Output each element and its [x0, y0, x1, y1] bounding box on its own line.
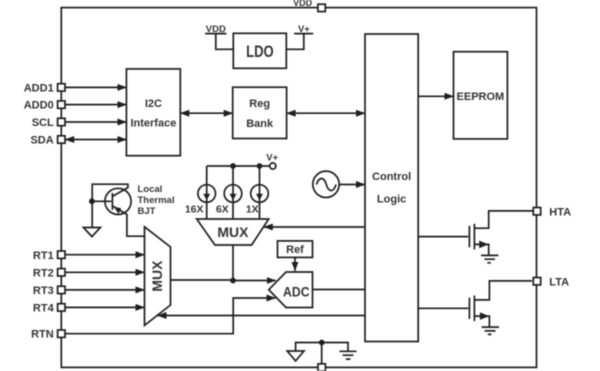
svg-text:Thermal: Thermal — [138, 195, 175, 206]
svg-text:HTA: HTA — [549, 206, 571, 218]
svg-text:LTA: LTA — [549, 276, 569, 288]
svg-text:RT3: RT3 — [33, 285, 54, 297]
svg-text:16X: 16X — [185, 204, 204, 216]
svg-text:VDD: VDD — [293, 0, 312, 9]
svg-text:RTN: RTN — [31, 329, 54, 341]
svg-text:Ref: Ref — [286, 244, 304, 256]
svg-text:VDD: VDD — [206, 24, 226, 35]
svg-text:MUX: MUX — [150, 261, 165, 292]
svg-text:RT2: RT2 — [33, 267, 54, 279]
svg-text:ADD1: ADD1 — [24, 83, 54, 95]
svg-text:ADC: ADC — [283, 284, 310, 299]
svg-text:V+: V+ — [298, 24, 310, 35]
svg-text:1X: 1X — [246, 204, 259, 216]
svg-text:RT1: RT1 — [33, 250, 54, 262]
svg-text:Control: Control — [372, 171, 411, 183]
svg-text:Interface: Interface — [130, 118, 176, 130]
svg-text:EEPROM: EEPROM — [457, 91, 505, 103]
svg-text:MUX: MUX — [217, 225, 248, 240]
svg-text:SDA: SDA — [30, 135, 53, 147]
svg-text:Reg: Reg — [249, 98, 270, 110]
svg-text:V+: V+ — [266, 152, 278, 163]
svg-text:LDO: LDO — [246, 42, 274, 61]
svg-text:BJT: BJT — [138, 206, 156, 217]
svg-text:Bank: Bank — [246, 118, 274, 130]
svg-text:Logic: Logic — [377, 193, 406, 205]
svg-text:6X: 6X — [216, 204, 229, 216]
svg-text:I2C: I2C — [145, 98, 162, 110]
svg-text:RT4: RT4 — [33, 303, 55, 315]
svg-text:Local: Local — [138, 184, 163, 195]
svg-text:SCL: SCL — [32, 117, 54, 129]
svg-text:ADD0: ADD0 — [24, 100, 54, 112]
